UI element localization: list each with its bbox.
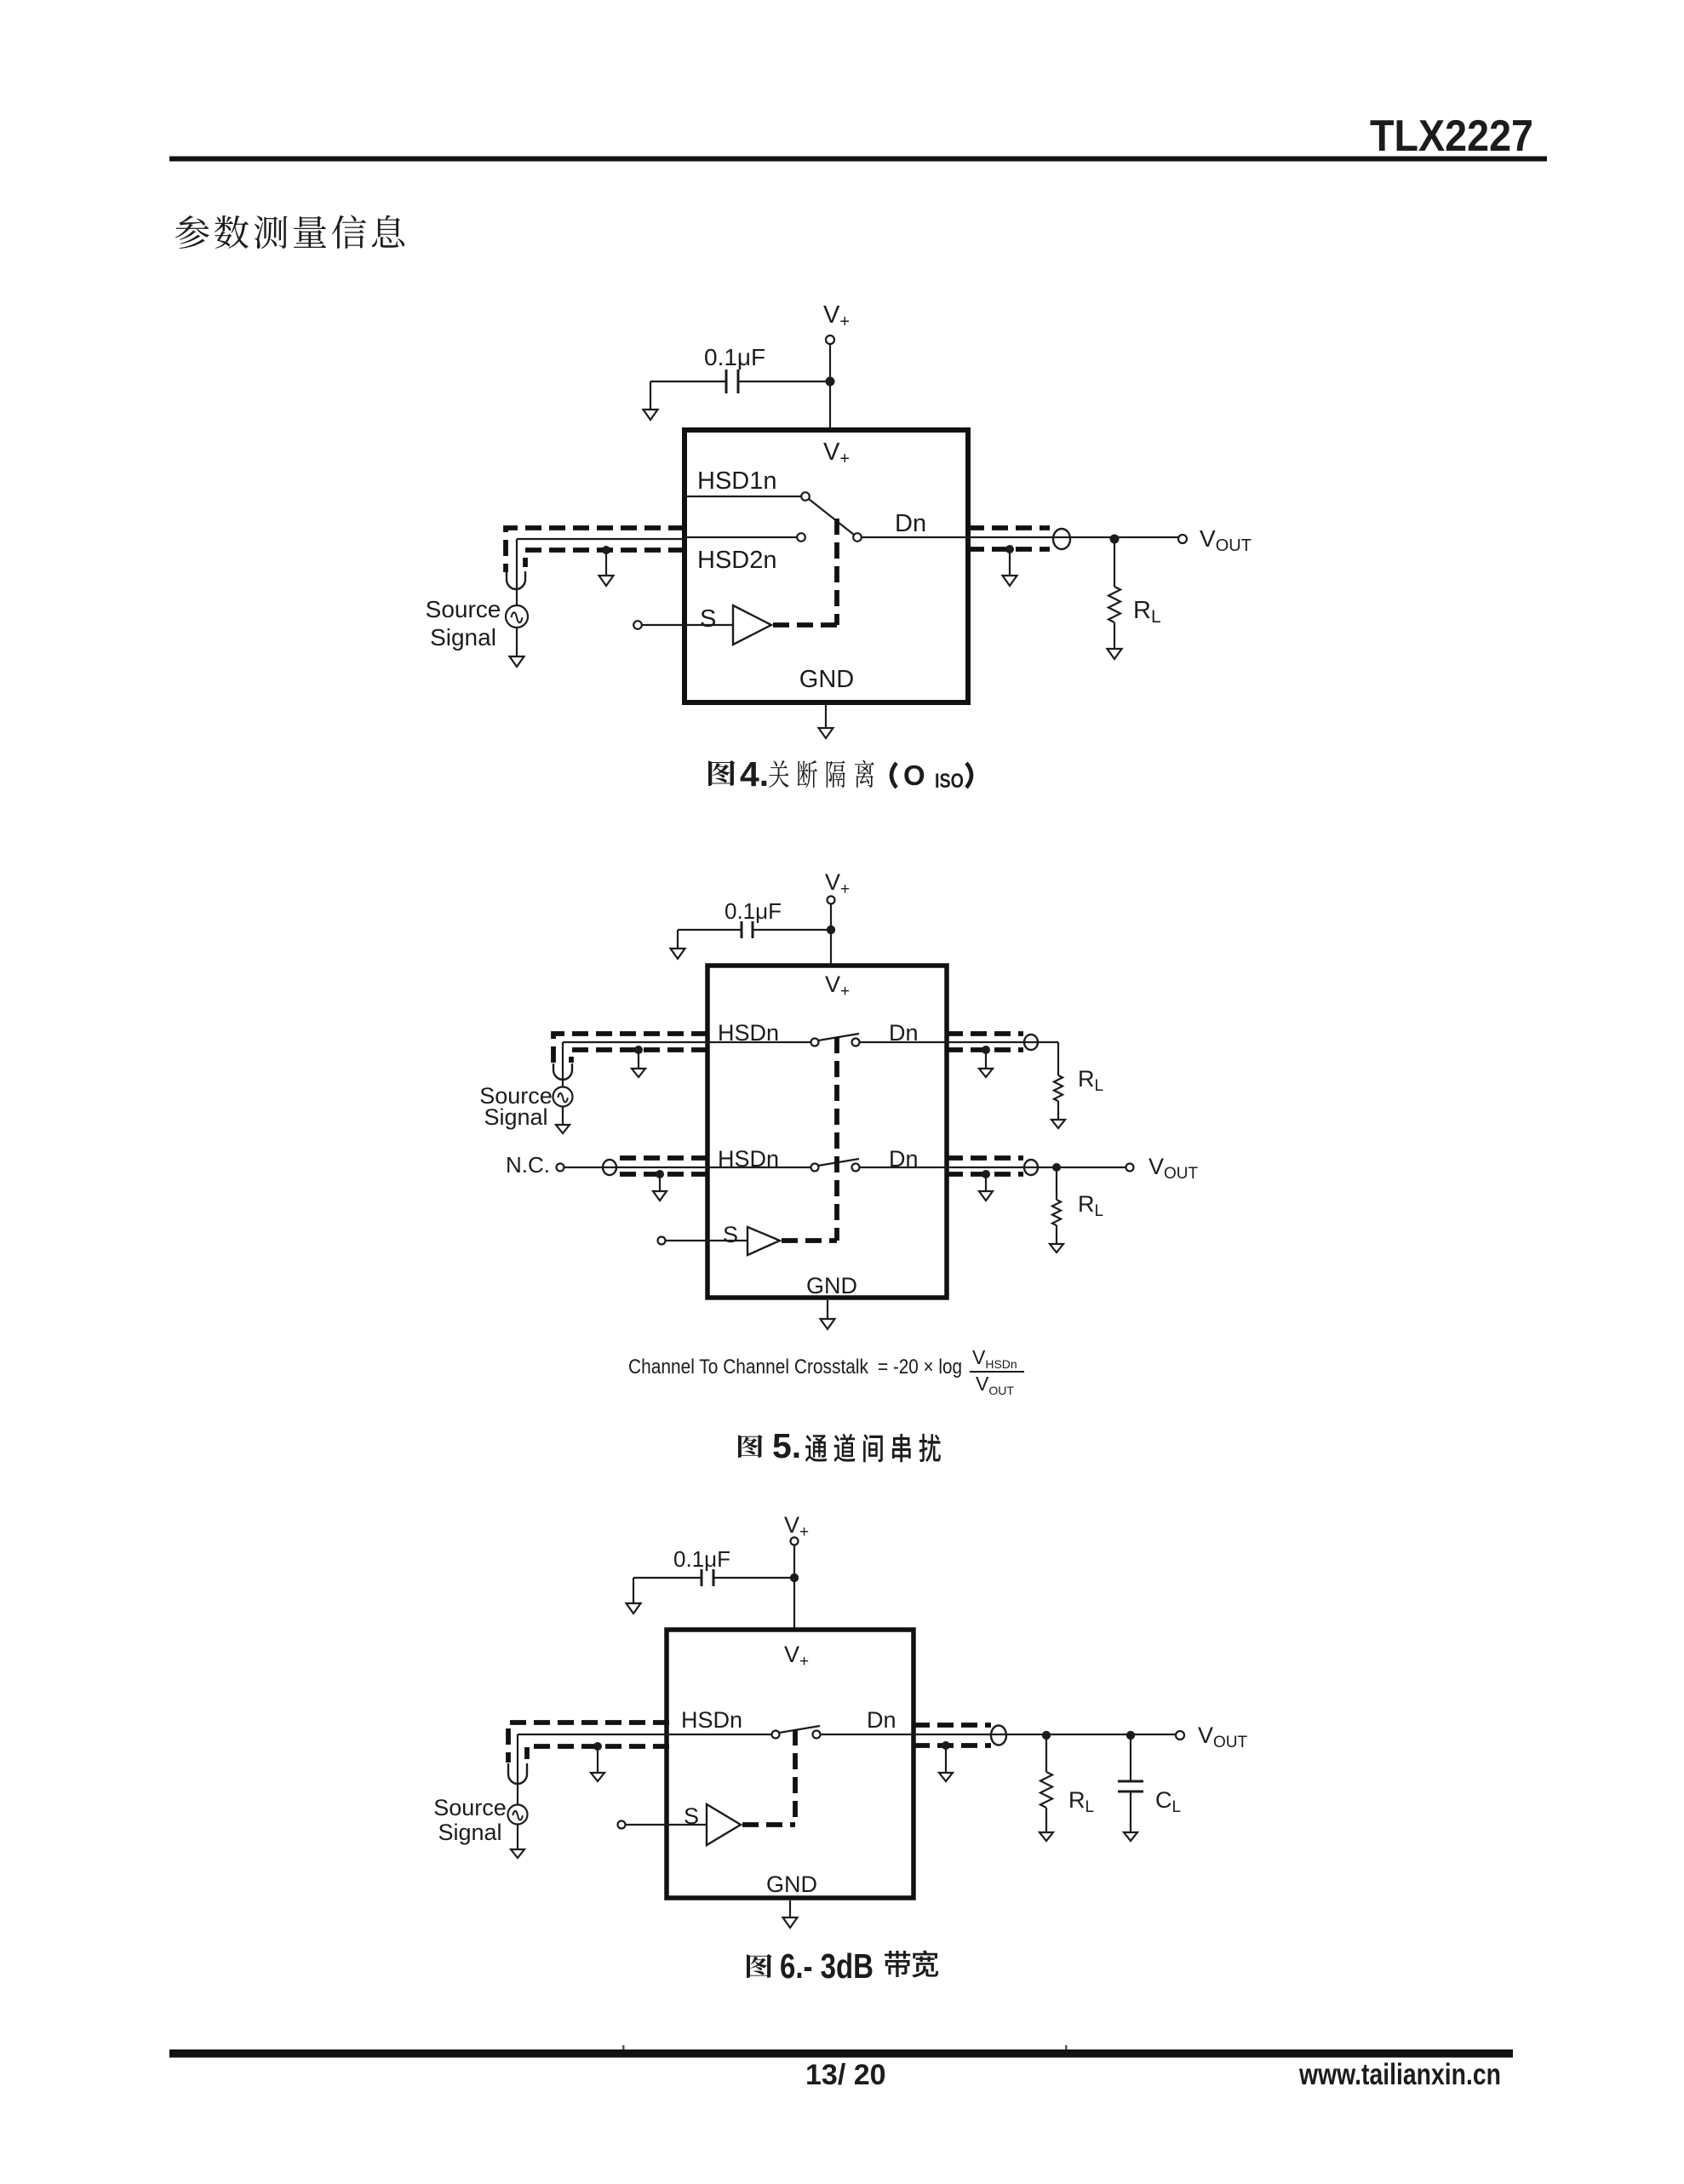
svg-text:Source: Source: [433, 1795, 507, 1820]
svg-text:4.: 4.: [740, 754, 769, 794]
svg-text:6.- 3dB: 6.- 3dB: [780, 1946, 874, 1986]
svg-text:Signal: Signal: [438, 1820, 501, 1845]
svg-text:TLX2227: TLX2227: [1370, 112, 1533, 161]
svg-text:0.1μF: 0.1μF: [704, 344, 765, 370]
svg-text:GND: GND: [806, 1273, 857, 1298]
svg-text:HSDn: HSDn: [681, 1707, 742, 1733]
svg-text:GND: GND: [799, 666, 854, 693]
svg-text:ISO: ISO: [935, 770, 964, 793]
svg-text:O: O: [903, 760, 925, 791]
svg-text:Channel To Channel Crosstalk: Channel To Channel Crosstalk: [628, 1356, 869, 1379]
svg-text:Dn: Dn: [867, 1707, 896, 1733]
svg-text:HSD1n: HSD1n: [697, 467, 777, 495]
svg-text:5.: 5.: [772, 1426, 801, 1465]
svg-text:Signal: Signal: [430, 624, 496, 651]
svg-text:13/ 20: 13/ 20: [805, 2059, 886, 2091]
svg-text:S: S: [723, 1222, 738, 1247]
svg-text:Dn: Dn: [895, 510, 926, 537]
svg-text:GND: GND: [766, 1872, 817, 1897]
svg-text:HSD2n: HSD2n: [697, 547, 777, 574]
svg-text:N.C.: N.C.: [506, 1152, 550, 1178]
svg-text:Source: Source: [426, 596, 501, 622]
svg-text:0.1μF: 0.1μF: [725, 898, 782, 924]
svg-text:S: S: [700, 605, 716, 633]
svg-text:www.tailianxin.cn: www.tailianxin.cn: [1298, 2058, 1501, 2091]
svg-text:0.1μF: 0.1μF: [673, 1546, 730, 1572]
svg-text:Signal: Signal: [484, 1104, 547, 1130]
svg-text:= -20 × log: = -20 × log: [878, 1356, 962, 1379]
